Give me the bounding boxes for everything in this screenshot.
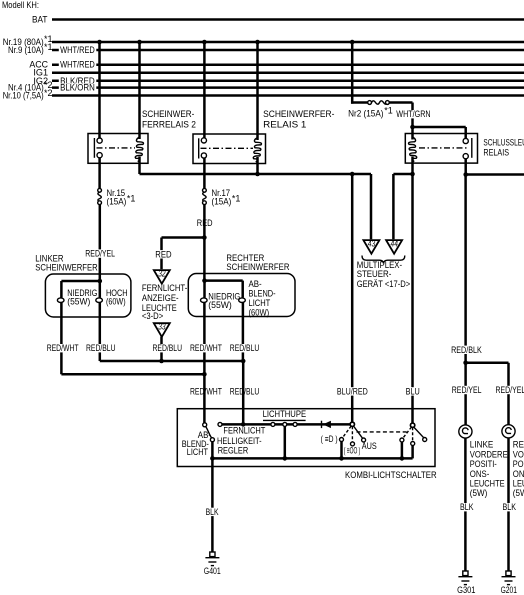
net ACC WHT/RED bus line <box>29 60 524 70</box>
left headlight LINKER SCHEINWERFER <box>35 254 131 318</box>
svg-text:RED/YEL: RED/YEL <box>496 385 524 395</box>
fuse Nr.15 (15A)*1 <box>98 188 136 207</box>
svg-text:POSITI-: POSITI- <box>513 459 524 469</box>
lamp LINKE VORDERE POSITIONSLEUCHTE (5W) <box>459 425 508 498</box>
svg-text:WHT/RED: WHT/RED <box>60 45 95 55</box>
svg-text:(15A): (15A) <box>212 197 232 207</box>
connector 33 <box>154 322 170 337</box>
wire RED/YEL right position light <box>494 363 524 425</box>
svg-text:Nr.10 (7,5A): Nr.10 (7,5A) <box>3 91 44 101</box>
switch rotary tail BLU <box>400 422 427 458</box>
svg-text:FERNLICHT: FERNLICHT <box>223 426 265 436</box>
svg-text:SCHEINWERFER: SCHEINWERFER <box>35 262 98 272</box>
wire BLK to G201 <box>501 438 517 571</box>
svg-text:( ≡D ): ( ≡D ) <box>321 434 338 444</box>
wire high beam net line y361 <box>100 359 246 364</box>
wire RED label above branch <box>196 218 214 228</box>
svg-text:GERÄT <17-D>: GERÄT <17-D> <box>357 279 411 289</box>
net IG2 BLK/RED bus line <box>33 76 524 86</box>
svg-text:(5W): (5W) <box>470 488 488 498</box>
svg-text:RELAIS 1: RELAIS 1 <box>263 120 306 130</box>
multiplex connector 43 <box>363 239 379 254</box>
ground G201 <box>501 571 517 595</box>
wire drop to relay A coil <box>137 40 142 139</box>
svg-text:(15A): (15A) <box>107 197 127 207</box>
svg-text:RED/BLK: RED/BLK <box>451 345 482 355</box>
wire to multiplex pin 44 <box>393 172 414 240</box>
node junction inside right headlight <box>202 278 243 297</box>
svg-text:LICHT: LICHT <box>187 447 209 457</box>
wire tail relay output RED/BLK <box>450 172 524 363</box>
svg-text:RED/YEL: RED/YEL <box>452 385 482 395</box>
indicator label FERNLICHT-ANZEIGE-LEUCHTE <3-D> <box>142 283 187 321</box>
relay SCHEINWERFERRELAIS 2 <box>88 109 196 190</box>
svg-text:LEUCHTE: LEUCHTE <box>470 479 505 489</box>
relay SCHLUSSLEUCHTEN-RELAIS <box>405 134 524 177</box>
svg-text:BLU/RED: BLU/RED <box>337 386 368 396</box>
wire BLU/RED drop <box>336 174 370 424</box>
wire drop to relay A switch <box>97 40 102 140</box>
svg-text:AUS: AUS <box>362 441 377 451</box>
connector 32 <box>154 269 170 284</box>
contact AB-BLEND-LICHT <box>182 423 211 457</box>
fuse Nr.17 (15A)*1 <box>203 188 241 207</box>
contacts LICHTHUPE <box>263 409 307 458</box>
svg-text:RED/BLU: RED/BLU <box>86 343 116 353</box>
svg-text:RED/WHT: RED/WHT <box>47 343 79 353</box>
svg-text:Nr.9 (10A): Nr.9 (10A) <box>8 45 44 55</box>
net BAT <box>32 15 524 25</box>
lamp RECHTE VORDERE POSITIONSLEUCHTE (5W) <box>502 425 524 499</box>
svg-text:POSITI-: POSITI- <box>470 459 497 469</box>
svg-text:43: 43 <box>368 239 375 249</box>
svg-text:VORDERE: VORDERE <box>470 449 508 459</box>
svg-text:BLK: BLK <box>206 507 219 517</box>
svg-text:LICHT: LICHT <box>249 298 271 308</box>
switch rotary headlight BLU/RED <box>321 421 377 458</box>
svg-text:(60W): (60W) <box>249 308 270 318</box>
svg-text:BLK: BLK <box>460 502 474 512</box>
ground G401 <box>204 552 221 576</box>
node junction inside left headlight <box>61 279 102 298</box>
svg-text:RED/WHT: RED/WHT <box>190 343 222 353</box>
multiplex connector 44 <box>386 239 402 254</box>
svg-text:*1: *1 <box>127 194 136 204</box>
svg-text:AB-: AB- <box>249 279 262 289</box>
svg-text:(55W): (55W) <box>208 300 232 310</box>
svg-text:G201: G201 <box>501 585 517 595</box>
wire RED to right headlight <box>203 204 206 281</box>
svg-text:FERRELAIS 2: FERRELAIS 2 <box>142 120 196 130</box>
svg-text:*2: *2 <box>44 88 53 98</box>
svg-text:STEUER-: STEUER- <box>357 269 392 279</box>
wire drop to fuse Nr2 <box>350 40 368 104</box>
net Nr.19 (80A)*1 bus line <box>3 34 524 47</box>
svg-text:RELAIS: RELAIS <box>483 148 509 158</box>
svg-text:SCHEINWERFER-: SCHEINWERFER- <box>263 109 334 119</box>
svg-text:(55W): (55W) <box>67 296 90 306</box>
diode <box>322 421 331 428</box>
wire branch to indicator <box>154 235 207 269</box>
svg-text:BLK: BLK <box>503 502 517 512</box>
svg-text:RED: RED <box>155 249 172 259</box>
svg-text:(60W): (60W) <box>106 296 126 306</box>
svg-text:RED/BLU: RED/BLU <box>230 386 259 396</box>
svg-text:BLEND-: BLEND- <box>249 288 276 298</box>
svg-text:BAT: BAT <box>32 15 48 25</box>
svg-text:RED/YEL: RED/YEL <box>85 249 115 259</box>
svg-text:ONS-: ONS- <box>470 469 490 479</box>
svg-text:REGLER: REGLER <box>218 446 249 456</box>
svg-text:G301: G301 <box>457 585 475 595</box>
svg-text:FERNLICHT-: FERNLICHT- <box>142 283 187 293</box>
wire BLK to G301 <box>459 438 475 571</box>
wire RED/BLU from left high beam <box>85 303 117 362</box>
bulb NIEDRIG (55W) right <box>201 281 241 310</box>
svg-text:BLK/ORN: BLK/ORN <box>60 83 95 93</box>
svg-text:ANZEIGE-: ANZEIGE- <box>142 293 179 303</box>
svg-text:RED/WHT: RED/WHT <box>190 386 222 396</box>
wire WHT/GRN to relay C <box>389 103 465 140</box>
wire drop to relay B switch <box>202 40 207 139</box>
mechanical link dashed <box>357 431 410 433</box>
svg-text:*1: *1 <box>232 194 241 204</box>
svg-text:*1: *1 <box>44 42 53 52</box>
svg-text:RECHTE: RECHTE <box>513 439 524 449</box>
switch box KOMBI-LICHTSCHALTER <box>177 409 437 481</box>
wire to multiplex pin 43 <box>370 174 373 239</box>
svg-text:SCHEINWERFER: SCHEINWERFER <box>226 262 290 272</box>
wire RED/WHT from left low beam <box>46 303 80 375</box>
wire BLU drop <box>404 174 421 425</box>
svg-text:LICHTHUPE: LICHTHUPE <box>263 409 307 419</box>
svg-text:32: 32 <box>158 269 165 279</box>
svg-text:( ≡OO ): ( ≡OO ) <box>344 445 361 455</box>
net Nr.10 (7,5A)*2 bus line <box>3 88 524 101</box>
wire drop to relay B coil <box>255 40 260 140</box>
svg-text:BLU: BLU <box>406 386 420 396</box>
svg-text:SCHLUSSLEUCHTEN-: SCHLUSSLEUCHTEN- <box>483 138 524 148</box>
svg-text:Modell KH:: Modell KH: <box>2 0 39 10</box>
svg-text:RED/BLU: RED/BLU <box>153 343 183 353</box>
svg-text:44: 44 <box>391 239 398 249</box>
wire fernlicht rail <box>222 422 352 427</box>
wire RED/YEL to left headlight <box>84 205 116 282</box>
svg-text:ONS-: ONS- <box>513 469 524 479</box>
svg-text:LINKE: LINKE <box>470 439 494 449</box>
net Nr.9 (10A)*1 WHT/RED bus line <box>8 42 524 55</box>
svg-text:WHT/GRN: WHT/GRN <box>396 109 430 119</box>
svg-text:RED/BLU: RED/BLU <box>230 343 259 353</box>
svg-text:VORDERE: VORDERE <box>513 449 524 459</box>
node position light split <box>463 361 508 366</box>
svg-text:*1: *1 <box>384 106 393 116</box>
wire coil bus line y174 <box>140 172 372 177</box>
svg-text:G401: G401 <box>204 566 221 576</box>
contact FERNLICHT <box>217 422 266 455</box>
relay SCHEINWERFER-RELAIS 1 <box>193 109 334 190</box>
wire RED/BLU from indicator <box>151 337 183 361</box>
svg-text:<3-D>: <3-D> <box>142 311 163 321</box>
svg-text:LEUCHTE: LEUCHTE <box>513 479 524 489</box>
bulb AB-BLEND-LICHT (60W) <box>239 279 276 318</box>
switch blade dimmer <box>206 427 214 442</box>
wire RED/WHT from right low beam <box>189 303 223 424</box>
svg-text:(5W): (5W) <box>513 488 524 498</box>
wire ground bus inside switch <box>210 456 413 461</box>
svg-text:33: 33 <box>158 322 165 332</box>
fuse Nr2 (15A)*1 <box>348 101 393 119</box>
svg-text:WHT/RED: WHT/RED <box>60 60 95 70</box>
right headlight RECHTER SCHEINWERFER <box>188 253 295 317</box>
wire RED/BLU from right outer bulb <box>229 303 261 425</box>
svg-text:KOMBI-LICHTSCHALTER: KOMBI-LICHTSCHALTER <box>345 470 437 480</box>
wire BLK to G401 <box>204 442 220 553</box>
bulb NIEDRIG (55W) left <box>57 288 97 306</box>
net IG1 bus line <box>33 68 524 78</box>
net Nr.4 (10A)*2 BLK/ORN bus line <box>8 80 524 93</box>
ground G301 <box>457 571 475 595</box>
svg-text:SCHEINWER-: SCHEINWER- <box>142 109 194 119</box>
svg-text:HELLIGKEIT-: HELLIGKEIT- <box>217 436 262 446</box>
wire low beam net line y374 <box>61 372 206 377</box>
bulb HOCH (60W) <box>96 281 128 306</box>
multiplex unit label MULTIPLEX-STEUERGERAET <17-D> <box>357 256 411 289</box>
wire RED/YEL left position light <box>451 363 483 425</box>
svg-text:Nr2 (15A): Nr2 (15A) <box>348 109 383 119</box>
